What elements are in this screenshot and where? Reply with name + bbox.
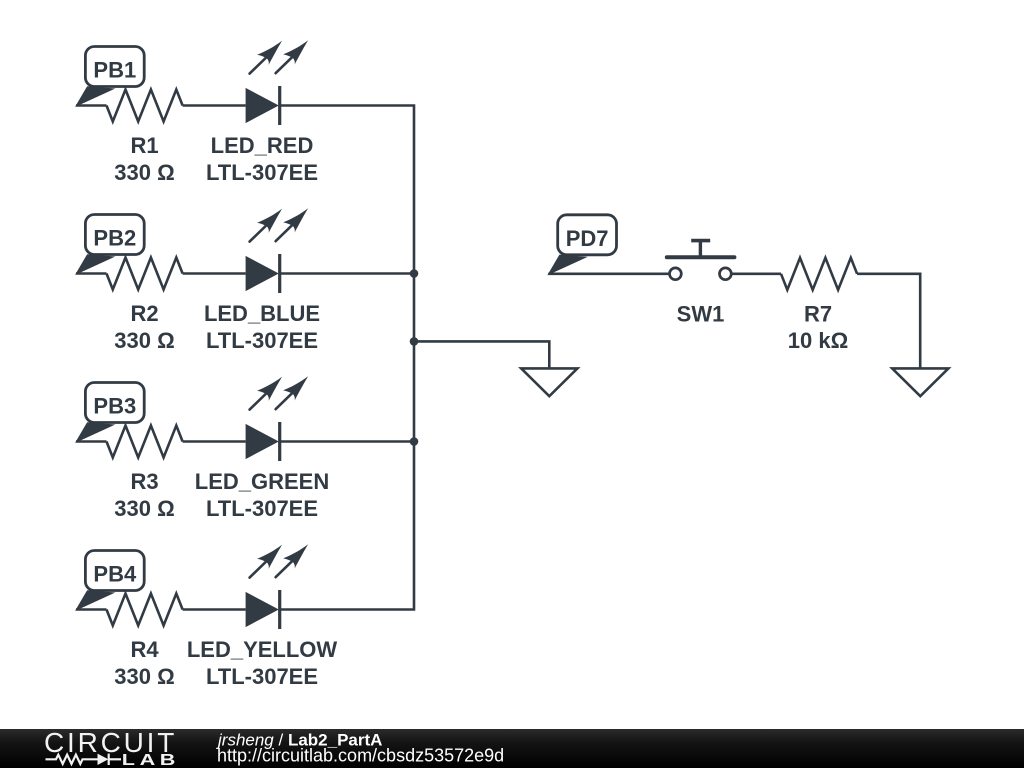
- resistor R3: [107, 426, 183, 458]
- svg-text:330 Ω: 330 Ω: [114, 496, 174, 521]
- wire R4 to LED anode: [183, 608, 246, 611]
- wire R1 to LED anode: [183, 104, 246, 107]
- net flag PB4 pointer tail: [76, 591, 113, 610]
- svg-text:R4: R4: [130, 637, 159, 662]
- svg-text:LTL-307EE: LTL-307EE: [206, 664, 318, 689]
- resistor R1: [107, 90, 183, 122]
- svg-text:R2: R2: [130, 301, 158, 326]
- wire LED LED_BLUE cathode to bus: [280, 272, 414, 275]
- LED LED_GREEN triangle (anode): [246, 424, 279, 459]
- net flag PB4 box: [85, 551, 144, 591]
- LED LED_YELLOW cathode bar: [278, 590, 281, 629]
- svg-text:PD7: PD7: [566, 226, 609, 251]
- wire LED LED_GREEN cathode to bus: [280, 440, 414, 443]
- svg-text:LTL-307EE: LTL-307EE: [206, 160, 318, 185]
- wire R7 to ground GND2: [857, 274, 920, 368]
- resistor R7: [781, 258, 857, 290]
- svg-text:PB2: PB2: [93, 226, 136, 251]
- svg-text:PB3: PB3: [93, 394, 136, 419]
- ground GND1 symbol: [521, 368, 577, 396]
- wire PB4 flag to R4: [76, 608, 107, 611]
- svg-text:LED_RED: LED_RED: [211, 133, 314, 158]
- wire SW1 to R7: [732, 272, 781, 275]
- wire PB2 flag to R2: [76, 272, 107, 275]
- resistor R2: [107, 258, 183, 290]
- wire PB3 flag to R3: [76, 440, 107, 443]
- LED LED_RED cathode bar: [278, 86, 281, 125]
- switch SW1 right contact: [720, 268, 732, 280]
- net flag PB1 pointer tail: [76, 87, 113, 106]
- wire R3 to LED anode: [183, 440, 246, 443]
- svg-text:10 kΩ: 10 kΩ: [788, 328, 848, 353]
- LED LED_BLUE emission arrow 1: [250, 224, 268, 242]
- svg-text:PB4: PB4: [93, 562, 137, 587]
- svg-text:LTL-307EE: LTL-307EE: [206, 328, 318, 353]
- LED LED_RED emission arrow 1: [250, 56, 268, 74]
- svg-text:330 Ω: 330 Ω: [114, 328, 174, 353]
- svg-text:LTL-307EE: LTL-307EE: [206, 496, 318, 521]
- LED LED_YELLOW emission arrow 1: [250, 560, 268, 578]
- switch SW1 left contact: [670, 268, 682, 280]
- wire PB1 flag to R1: [76, 104, 107, 107]
- wire PD7 flag to SW1: [548, 272, 669, 275]
- svg-text:LED_BLUE: LED_BLUE: [204, 301, 320, 326]
- LED LED_RED emission arrow 2: [276, 55, 294, 73]
- svg-text:LED_GREEN: LED_GREEN: [195, 469, 329, 494]
- junction dot row2/bus: [410, 269, 419, 278]
- junction dot ground-tap/bus: [410, 337, 419, 346]
- LED LED_RED triangle (anode): [246, 88, 279, 123]
- LED LED_BLUE triangle (anode): [246, 256, 279, 291]
- net flag PD7 pointer tail: [549, 255, 586, 274]
- LED LED_YELLOW triangle (anode): [246, 592, 279, 627]
- net flag PB1 box: [85, 47, 144, 87]
- LED LED_BLUE emission arrow 2: [276, 223, 294, 241]
- svg-text:330 Ω: 330 Ω: [114, 160, 174, 185]
- svg-text:330 Ω: 330 Ω: [114, 664, 174, 689]
- resistor R4: [107, 594, 183, 626]
- LED LED_GREEN cathode bar: [278, 422, 281, 461]
- net flag PB2 box: [85, 215, 144, 255]
- svg-text:R3: R3: [130, 469, 158, 494]
- LED LED_GREEN emission arrow 1: [250, 392, 268, 410]
- junction dot row3/bus: [410, 437, 419, 446]
- wire cathode bus (row1 corner, vertical, row4 corner): [280, 106, 414, 610]
- LED LED_YELLOW emission arrow 2: [276, 559, 294, 577]
- svg-text:R1: R1: [130, 133, 158, 158]
- ground GND2 symbol: [892, 368, 948, 396]
- net flag PB3 box: [85, 383, 144, 423]
- svg-text:R7: R7: [804, 301, 832, 326]
- net flag PD7 box: [558, 215, 617, 255]
- CircuitLab logo resistor-diode glyph: [46, 754, 122, 765]
- svg-text:PB1: PB1: [93, 58, 136, 83]
- net flag PB3 pointer tail: [76, 423, 113, 442]
- switch SW1 actuator bar: [667, 255, 735, 259]
- switch SW1 plunger stem: [699, 241, 702, 258]
- LED LED_BLUE cathode bar: [278, 254, 281, 293]
- svg-text:SW1: SW1: [677, 301, 725, 326]
- svg-text:LED_YELLOW: LED_YELLOW: [187, 637, 338, 662]
- net flag PB2 pointer tail: [76, 255, 113, 274]
- LED LED_GREEN emission arrow 2: [276, 391, 294, 409]
- switch SW1 plunger cap: [691, 239, 710, 243]
- wire R2 to LED anode: [183, 272, 246, 275]
- svg-text:LAB: LAB: [122, 752, 180, 768]
- svg-text:http://circuitlab.com/cbsdz535: http://circuitlab.com/cbsdz53572e9d: [217, 746, 504, 766]
- wire bus to ground GND1: [414, 341, 549, 368]
- footer brand bar: [0, 729, 1024, 768]
